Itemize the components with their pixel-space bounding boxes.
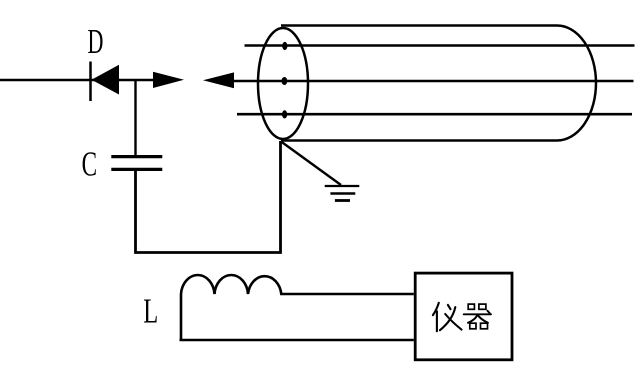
svg-text:L: L bbox=[143, 291, 158, 330]
svg-text:D: D bbox=[88, 23, 104, 61]
svg-text:C: C bbox=[82, 146, 97, 184]
